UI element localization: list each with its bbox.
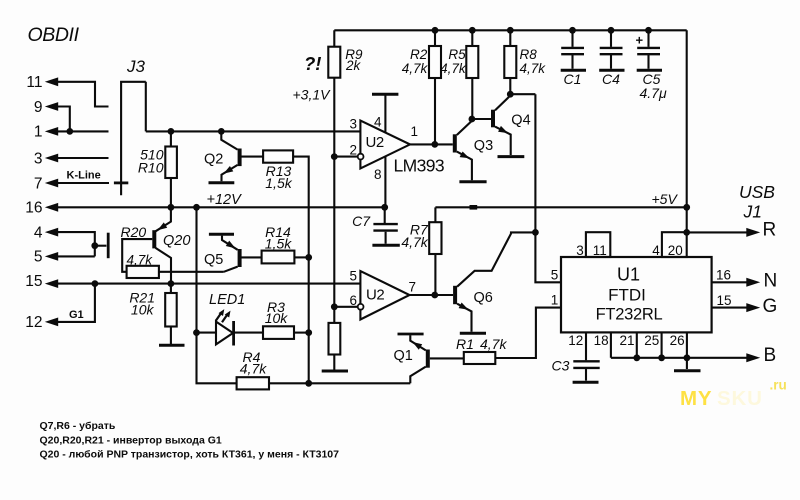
- base bar Q3: [453, 134, 457, 152]
- svg-text:MY: MY: [680, 387, 712, 410]
- resistor R14: [262, 251, 295, 264]
- svg-text:Q20,R20,R21 - инвертор выхода: Q20,R20,R21 - инвертор выхода G1: [40, 434, 222, 446]
- svg-text:B: B: [764, 345, 777, 366]
- node U2a pin2/R9: [331, 153, 338, 160]
- wire LED column down to R4 line: [197, 333, 237, 384]
- svg-text:4,7k: 4,7k: [402, 61, 429, 76]
- svg-text:Q20 - любой PNP транзистор, хо: Q20 - любой PNP транзистор, хоть КТ361, …: [40, 449, 340, 461]
- wire Q6 base: [435, 294, 453, 296]
- svg-text:Q1: Q1: [394, 348, 413, 364]
- resistor R7 leads: [434, 207, 436, 295]
- svg-text:SKU: SKU: [717, 387, 763, 410]
- transistor Q6 collector path to RXD node: [457, 232, 535, 286]
- base bar Q20: [152, 230, 156, 248]
- resistor R3: [263, 326, 294, 339]
- node bus/pin25: [658, 354, 665, 361]
- arrow OBDII pin 5: [45, 252, 58, 261]
- arrow OBDII pin 16: [45, 203, 58, 212]
- node R3/column: [305, 329, 312, 336]
- wire right rail to USB VBUS: [686, 30, 688, 232]
- wire R9 column pin2 to pin6: [333, 157, 335, 307]
- wire OBDII pin 12 G1: [57, 284, 95, 322]
- ground bar C1: [561, 69, 586, 72]
- svg-text:12: 12: [568, 333, 583, 348]
- wire Q2 base to R13: [242, 156, 264, 158]
- capacitor C4 plates: [600, 48, 623, 54]
- svg-text:1: 1: [411, 124, 419, 139]
- ground bar C7: [372, 244, 399, 247]
- wire LED to R3: [235, 332, 263, 334]
- svg-text:4: 4: [374, 114, 382, 129]
- arrow OBDII pin 1: [45, 127, 58, 136]
- svg-text:R5: R5: [448, 47, 466, 62]
- node R5/Q3 coll/Q4 base: [469, 116, 476, 123]
- svg-text:Q4: Q4: [511, 113, 530, 129]
- wire +12V rail (pin 16): [57, 206, 385, 208]
- transistor Q20 emitter: [156, 207, 171, 231]
- node +12V/R10/Q20: [168, 204, 175, 211]
- LED1 triangle: [216, 322, 233, 345]
- svg-text:R1: R1: [456, 336, 474, 352]
- resistor R2: [429, 46, 441, 78]
- resistor R4: [237, 377, 269, 389]
- svg-text:C3: C3: [552, 358, 570, 374]
- ground bar C5: [637, 69, 662, 72]
- wire U2 pin 2: [334, 156, 357, 158]
- svg-text:4,7k: 4,7k: [480, 336, 507, 352]
- wire U2a out to Q3 base: [435, 143, 453, 145]
- svg-text:G1: G1: [69, 309, 84, 321]
- svg-text:+: +: [636, 33, 644, 48]
- wire OBDII pin 4: [57, 232, 95, 256]
- arrow OBDII pin 12: [45, 318, 58, 327]
- transistor Q2 emitter: [222, 165, 238, 181]
- svg-text:1,5k: 1,5k: [265, 175, 292, 191]
- resistor R7: [429, 222, 441, 254]
- transistor Q6 emitter: [457, 304, 471, 332]
- LED1 cathode bar: [232, 321, 235, 346]
- svg-text:26: 26: [670, 333, 685, 348]
- svg-text:10k: 10k: [131, 302, 155, 318]
- resistor R5 leads: [471, 30, 473, 119]
- node bus/pin21: [633, 354, 640, 361]
- arrow OBDII pin 15: [45, 279, 58, 288]
- resistor R8: [504, 46, 516, 78]
- capacitor C4 leads: [610, 30, 612, 68]
- base bar Q5: [238, 249, 242, 267]
- svg-text:+5V: +5V: [652, 191, 679, 207]
- node U2a out/R2/Q3 base: [431, 141, 438, 148]
- svg-text:Q7,R6 - убрать: Q7,R6 - убрать: [40, 420, 116, 432]
- svg-text:18: 18: [594, 333, 609, 348]
- wire +12V to LED column: [195, 207, 197, 332]
- wire OBDII pin 1: [57, 130, 109, 132]
- svg-text:4: 4: [652, 243, 660, 258]
- svg-text:11: 11: [26, 74, 42, 91]
- svg-text:4,7k: 4,7k: [240, 361, 267, 377]
- svg-text:25: 25: [644, 333, 659, 348]
- transistor Q3 collector: [457, 119, 472, 135]
- arrow USB G: [746, 303, 760, 312]
- svg-text:K-Line: K-Line: [67, 170, 101, 182]
- capacitor C5 leads: [647, 30, 649, 68]
- wire R10 leads: [170, 131, 172, 207]
- transistor Q4 collector: [495, 94, 510, 110]
- node pin9/pin1: [66, 128, 73, 135]
- svg-text:R10: R10: [138, 160, 164, 176]
- wire Q4/Q6 to U1 pin 5: [535, 94, 561, 282]
- wire R1 to U1 pin 1: [495, 308, 561, 358]
- base bar Q1: [426, 350, 430, 368]
- svg-text:20: 20: [668, 243, 683, 258]
- emitter arrow Q3: [460, 152, 470, 159]
- J3 pin7 contact tick: [114, 181, 128, 184]
- svg-text:.ru: .ru: [770, 378, 787, 393]
- svg-text:N: N: [764, 271, 778, 292]
- svg-text:9: 9: [34, 99, 43, 116]
- svg-text:3: 3: [576, 243, 584, 258]
- svg-text:4,7k: 4,7k: [127, 252, 154, 267]
- transistor Q4 emitter: [495, 127, 511, 155]
- ground bar U1: [674, 369, 701, 372]
- U2a inverting input bubble: [358, 154, 364, 160]
- wire OBDII pin 3: [57, 157, 109, 159]
- arrow OBDII pin 3: [45, 154, 58, 163]
- U2b inverting input bubble: [358, 304, 364, 310]
- wire Q1 base to R1: [430, 357, 464, 359]
- svg-text:3: 3: [34, 150, 43, 167]
- arrow OBDII pin 9: [45, 102, 58, 111]
- svg-text:5: 5: [349, 268, 357, 283]
- wire U1 pin 16 to N: [712, 281, 748, 283]
- LED1 emission arrows: [216, 312, 228, 322]
- svg-text:4.7μ: 4.7μ: [640, 85, 667, 101]
- wire R3 to node column: [294, 332, 309, 334]
- wire U1 pin 12 lead: [585, 332, 587, 360]
- transistor Q2 collector: [221, 131, 237, 149]
- resistor R8 leads: [509, 30, 511, 94]
- svg-text:R20: R20: [121, 224, 147, 240]
- wire U1 pin 15 to G: [712, 307, 748, 309]
- svg-text:Q5: Q5: [204, 252, 223, 268]
- ground bar R21: [159, 344, 185, 347]
- svg-text:11: 11: [593, 243, 607, 258]
- svg-text:4,7k: 4,7k: [401, 234, 428, 250]
- node RXD tie: [532, 229, 539, 236]
- transistor Q3 emitter: [457, 152, 472, 181]
- op-amp U2b triangle: [360, 271, 409, 320]
- node VBUS/R: [683, 229, 690, 236]
- node rail/C1: [569, 27, 576, 34]
- svg-text:FTDI: FTDI: [608, 286, 646, 305]
- node U2b out/R7/Q6 base: [431, 292, 438, 299]
- transistor Q1 lower lead: [410, 367, 426, 384]
- arrow USB B: [746, 353, 760, 362]
- op-amp U2a triangle: [360, 121, 410, 169]
- ground bar Q3: [459, 180, 486, 183]
- svg-text:J1: J1: [743, 202, 762, 222]
- svg-text:4,7k: 4,7k: [440, 61, 467, 76]
- wire U1 ground stub: [686, 358, 688, 369]
- node R4/column: [305, 380, 312, 387]
- node +12V/U2a pin8/C7: [381, 204, 388, 211]
- node LED anode: [193, 329, 200, 336]
- node U2b pin6/R12: [331, 303, 338, 310]
- node pin15/pin12: [92, 280, 99, 287]
- emitter arrow Q6: [459, 303, 469, 310]
- node R8/Q4 coll: [507, 91, 514, 98]
- svg-text:R: R: [763, 220, 777, 241]
- LED1 arrowhead 2: [225, 311, 231, 318]
- svg-text:+12V: +12V: [207, 192, 243, 208]
- U1 pins 4/20 tie box: [662, 232, 687, 257]
- svg-text:4: 4: [34, 224, 43, 241]
- artifact mark on +5V rail: [470, 205, 478, 210]
- node +5V/right rail: [683, 204, 690, 211]
- svg-text:16: 16: [716, 268, 731, 283]
- svg-text:6: 6: [349, 293, 357, 308]
- svg-text:5: 5: [34, 249, 43, 266]
- resistor R9: [328, 47, 340, 78]
- arrow OBDII pin 11: [45, 77, 58, 86]
- resistor R5: [466, 46, 478, 78]
- node bus/pin26: [684, 354, 691, 361]
- node rail/C5: [645, 27, 652, 34]
- svg-text:7: 7: [409, 279, 417, 294]
- emitter arrow Q4: [498, 126, 508, 133]
- wire Q20 base to R20: [122, 239, 152, 272]
- svg-text:C4: C4: [602, 71, 620, 87]
- arrow OBDII pin 7: [45, 179, 58, 188]
- svg-text:Q6: Q6: [474, 290, 493, 306]
- resistor R1: [464, 352, 496, 364]
- resistor R21: [165, 293, 177, 327]
- ground bar Q5 (flipped): [209, 233, 234, 236]
- svg-text:U2: U2: [366, 134, 384, 151]
- capacitor C3 plates: [573, 361, 599, 368]
- capacitor C7 plates: [373, 224, 397, 231]
- node pin15/Q20 collector/R21: [168, 280, 175, 287]
- resistor R12 leads: [333, 307, 335, 370]
- transistor Q5 collector: [224, 267, 238, 272]
- svg-text:?!: ?!: [304, 53, 321, 74]
- arrow USB N: [746, 278, 760, 287]
- emitter arrow Q1: [413, 342, 423, 350]
- capacitor C7 leads: [384, 207, 387, 243]
- resistor R10: [165, 147, 177, 179]
- ground bar C4: [599, 69, 624, 72]
- svg-text:1,5k: 1,5k: [265, 236, 292, 252]
- svg-text:J3: J3: [126, 57, 146, 76]
- wire R13 to node column: [293, 157, 309, 258]
- wire LED anode: [197, 332, 217, 334]
- node K-line/R10: [168, 128, 175, 135]
- base bar Q2: [238, 149, 242, 167]
- wire U2b output pin 7: [410, 294, 435, 296]
- IC U1 FT232RL body: [561, 257, 712, 332]
- base bar Q6: [453, 286, 457, 304]
- wire ground bus to B: [611, 357, 748, 359]
- U1 pins 3/11 tie box: [586, 232, 610, 257]
- node pins 4/5 tie: [91, 242, 98, 249]
- svg-text:U1: U1: [617, 265, 640, 285]
- wire OBDII pin 5: [57, 255, 95, 257]
- svg-text:21: 21: [619, 333, 634, 348]
- node rail/R2: [432, 27, 439, 34]
- svg-text:LM393: LM393: [394, 156, 445, 176]
- node +12V/LED column: [193, 204, 200, 211]
- wire node column R13/R14/R3/R4: [308, 257, 310, 383]
- svg-text:3: 3: [349, 116, 357, 131]
- wire R to USB (VBUS): [687, 231, 748, 233]
- wire R4 to Q1: [269, 382, 410, 384]
- svg-text:15: 15: [717, 293, 732, 308]
- svg-text:R8: R8: [520, 47, 538, 62]
- node R14/column: [305, 254, 312, 261]
- svg-text:USB: USB: [739, 182, 775, 202]
- wire pin 15 / G1 net to U2 pin5: [57, 283, 360, 285]
- connector J3 body: [120, 81, 146, 195]
- svg-text:7: 7: [34, 175, 43, 192]
- wire OBDII pin 9: [57, 107, 70, 132]
- capacitor C1 plates: [561, 48, 584, 54]
- svg-text:+3,1V: +3,1V: [293, 87, 332, 103]
- svg-text:2: 2: [349, 143, 357, 158]
- wire +5V rail: [435, 206, 686, 208]
- resistor R20: [127, 266, 159, 278]
- svg-text:OBDII: OBDII: [28, 24, 80, 46]
- node K-line/Q2 collector: [218, 128, 225, 135]
- svg-text:8: 8: [374, 167, 382, 182]
- wire contact stub pins 4/5: [95, 245, 107, 247]
- svg-text:Q3: Q3: [474, 138, 493, 154]
- svg-text:16: 16: [25, 200, 42, 217]
- capacitor C1 leads: [571, 30, 573, 68]
- contact bar J3 pins 4/5: [107, 233, 110, 259]
- wire R20 to Q5 collector: [159, 271, 224, 273]
- wire U2 pin 6: [334, 306, 357, 308]
- base bar Q4: [491, 110, 495, 128]
- resistor R2 leads: [434, 30, 436, 144]
- resistor R21 leads: [170, 284, 172, 345]
- node rail/R8: [507, 27, 514, 34]
- svg-text:15: 15: [25, 273, 42, 290]
- svg-text:U2: U2: [366, 287, 384, 304]
- wire top +5V distribution rail: [334, 29, 686, 31]
- node rail/C4: [608, 27, 615, 34]
- wire Q3 collector to Q4 base: [472, 118, 491, 120]
- ground bar Q1 (flipped): [398, 333, 424, 336]
- wire K-line net: [146, 130, 361, 132]
- wire OBDII pin 7 K-Line: [57, 182, 109, 184]
- emitter arrow Q20: [158, 222, 168, 230]
- svg-text:R2: R2: [410, 47, 428, 62]
- svg-text:1: 1: [34, 124, 43, 141]
- wire U1 ground pins 18/21/25/26: [611, 332, 687, 357]
- arrow USB R: [746, 228, 760, 237]
- svg-text:C7: C7: [352, 213, 371, 229]
- emitter arrow Q5: [226, 241, 236, 249]
- resistor R9 leads: [333, 30, 335, 156]
- wire OBDII pin 11: [57, 82, 109, 107]
- svg-text:G: G: [763, 296, 778, 317]
- svg-text:12: 12: [25, 314, 42, 331]
- capacitor C3 bottom lead: [585, 369, 587, 381]
- wire R14 to node column: [294, 256, 308, 258]
- emitter arrow Q2: [224, 166, 234, 174]
- svg-text:2k: 2k: [345, 58, 362, 73]
- wire U2a pin 8: [384, 156, 386, 207]
- node rail/R5: [469, 27, 476, 34]
- capacitor C5 plates: [637, 48, 660, 54]
- power bar U2a pin 4: [372, 93, 398, 96]
- resistor R13: [263, 150, 293, 162]
- svg-text:FT232RL: FT232RL: [596, 306, 663, 324]
- wire Q4 collector to RXD column: [510, 93, 535, 95]
- ground bar R12: [322, 370, 348, 373]
- transistor Q20 collector: [156, 248, 172, 284]
- svg-text:10k: 10k: [265, 310, 289, 326]
- ground bar Q2: [209, 181, 235, 184]
- wire Q5 base to R14: [242, 256, 262, 258]
- ground bar Q6: [460, 332, 486, 335]
- svg-text:C1: C1: [564, 71, 582, 87]
- svg-text:4,7k: 4,7k: [520, 61, 547, 76]
- wire U2a pin 4 power: [384, 95, 386, 132]
- svg-text:Q2: Q2: [204, 152, 223, 168]
- svg-text:5: 5: [551, 267, 559, 282]
- resistor R12: [329, 323, 341, 355]
- LED1 arrowhead 1: [219, 309, 225, 316]
- transistor Q5 emitter: [222, 236, 238, 250]
- wire U2a output pin 1: [410, 143, 435, 145]
- svg-text:1: 1: [551, 292, 559, 307]
- ground bar Q4: [498, 155, 525, 158]
- svg-text:Q20: Q20: [163, 233, 190, 249]
- ground bar C3: [573, 381, 599, 384]
- svg-text:LED1: LED1: [209, 292, 245, 308]
- arrow OBDII pin 4: [45, 228, 58, 237]
- transistor Q1 upper lead: [410, 335, 426, 350]
